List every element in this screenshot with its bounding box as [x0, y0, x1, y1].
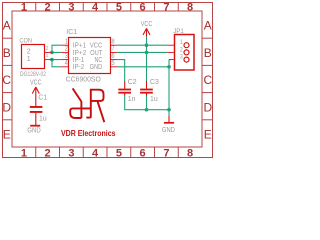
svg-text:3: 3: [68, 148, 74, 160]
svg-text:B: B: [3, 46, 11, 60]
svg-text:7: 7: [163, 2, 169, 14]
svg-text:D: D: [2, 100, 11, 114]
CON pin 2 stub: [45, 51, 53, 53]
svg-text:IC1: IC1: [66, 29, 77, 36]
JP1 pin 3 stub: [169, 59, 174, 61]
svg-text:1: 1: [180, 39, 183, 46]
JP1 pad circle 2: [184, 50, 189, 55]
svg-text:2: 2: [45, 2, 51, 14]
svg-text:A: A: [3, 19, 11, 33]
svg-text:3: 3: [65, 53, 68, 60]
svg-text:E: E: [3, 128, 11, 142]
logo glyph right (R): [86, 89, 104, 122]
capacitor C2: [124, 81, 126, 89]
svg-text:3: 3: [180, 54, 183, 61]
svg-text:C3: C3: [150, 79, 159, 86]
svg-text:E: E: [204, 128, 212, 142]
svg-text:DG128V-02: DG128V-02: [20, 71, 46, 78]
IC1 pin 4 stub: [61, 66, 68, 68]
svg-text:4: 4: [92, 2, 99, 14]
logo glyph left (rotated R): [70, 88, 91, 118]
IC1 pin 6 stub: [111, 59, 118, 61]
supply symbol VCC left: [32, 87, 39, 106]
IC1 pin 1 stub: [61, 44, 68, 46]
svg-text:6: 6: [140, 2, 146, 14]
wire net GND: IC pin5 to JP1 pin3 and GND rail: [117, 60, 170, 116]
svg-text:2: 2: [46, 46, 49, 52]
svg-text:GND: GND: [90, 64, 103, 71]
svg-text:VCC: VCC: [141, 21, 153, 28]
ground symbol right: [168, 116, 170, 122]
node junction dot CON pin2: [50, 51, 54, 55]
svg-text:2: 2: [45, 148, 51, 160]
svg-text:VDR Electronics: VDR Electronics: [61, 129, 116, 138]
wire net IC pin6 to C2: [117, 60, 125, 81]
JP1 pin 1 stub: [167, 44, 174, 46]
svg-text:D: D: [203, 100, 212, 114]
svg-text:1n: 1n: [128, 96, 136, 103]
IC1 pin 7 stub: [111, 51, 118, 53]
svg-text:CON: CON: [19, 38, 32, 45]
IC1 pin 2 stub: [61, 51, 68, 53]
svg-text:1: 1: [21, 2, 27, 14]
svg-text:1: 1: [21, 148, 27, 160]
op-amp IC1 box: [69, 38, 111, 74]
svg-text:6: 6: [140, 148, 146, 160]
connector CON box: [22, 45, 45, 69]
node junction dot GND corner: [167, 65, 171, 69]
CON pin 1 stub: [45, 59, 53, 61]
svg-text:4: 4: [92, 148, 99, 160]
svg-text:7: 7: [163, 148, 169, 160]
IC1 pin 5 stub: [111, 66, 118, 68]
svg-text:1: 1: [46, 53, 49, 59]
IC1 pin 8 stub: [111, 44, 118, 46]
svg-text:8: 8: [112, 38, 115, 45]
svg-text:C2: C2: [128, 79, 137, 86]
node junction dot VCC/pin8: [145, 43, 149, 47]
svg-text:CC6900SO: CC6900SO: [66, 75, 101, 84]
svg-text:IP+1: IP+1: [73, 43, 86, 50]
svg-text:6: 6: [112, 53, 115, 60]
svg-text:8: 8: [187, 148, 193, 160]
svg-text:1: 1: [65, 38, 68, 45]
svg-text:1u: 1u: [150, 96, 158, 103]
node junction dot CON pin1: [50, 58, 54, 62]
wire net IC pin7 to JP1 pin2 and C3: [117, 45, 167, 81]
node junction dot GND rail: [167, 108, 171, 112]
svg-text:A: A: [204, 19, 212, 33]
ground symbol left: [30, 125, 40, 127]
svg-text:4: 4: [65, 60, 68, 67]
svg-text:5: 5: [112, 60, 115, 67]
node junction dot pin7/C3: [145, 51, 149, 55]
node junction dot C3 bottom: [145, 108, 149, 112]
svg-text:OUT: OUT: [90, 50, 103, 57]
capacitor C1: [30, 106, 43, 113]
svg-text:1u: 1u: [39, 116, 47, 123]
svg-text:JP1: JP1: [173, 28, 184, 35]
svg-text:C: C: [2, 73, 11, 87]
svg-text:IP-2: IP-2: [73, 64, 85, 71]
svg-text:IP+2: IP+2: [73, 50, 86, 57]
JP1 pad circle 3: [184, 57, 189, 62]
svg-text:C: C: [203, 73, 212, 87]
svg-text:2: 2: [180, 46, 183, 53]
IC1 pin 3 stub: [61, 59, 68, 61]
svg-text:2: 2: [27, 49, 31, 56]
capacitor C3: [146, 81, 148, 89]
JP1 pin 2 stub: [167, 51, 174, 53]
svg-text:2: 2: [65, 46, 68, 53]
svg-text:3: 3: [68, 2, 74, 14]
svg-text:5: 5: [116, 148, 122, 160]
wire net VCC / IC pin8 to JP1 pin1: [117, 37, 167, 46]
supply symbol VCC top: [143, 28, 150, 36]
svg-text:7: 7: [112, 46, 115, 53]
svg-text:B: B: [204, 46, 212, 60]
svg-text:GND: GND: [27, 127, 40, 134]
svg-text:GND: GND: [162, 127, 175, 134]
svg-text:VCC: VCC: [30, 80, 42, 87]
JP1 pad circle 1: [184, 43, 189, 48]
svg-text:IP-1: IP-1: [73, 57, 85, 64]
svg-text:VCC: VCC: [90, 43, 103, 50]
wire net CON pin2 to IC IP+1/IP+2: [52, 45, 61, 52]
svg-text:5: 5: [116, 2, 122, 14]
svg-text:C1: C1: [38, 94, 47, 101]
wire net CON pin1 to IC IP-1/IP-2: [52, 60, 61, 67]
svg-text:1: 1: [27, 56, 31, 63]
pin header JP1 box: [175, 35, 195, 71]
svg-text:8: 8: [187, 2, 193, 14]
svg-text:NC: NC: [95, 57, 103, 64]
